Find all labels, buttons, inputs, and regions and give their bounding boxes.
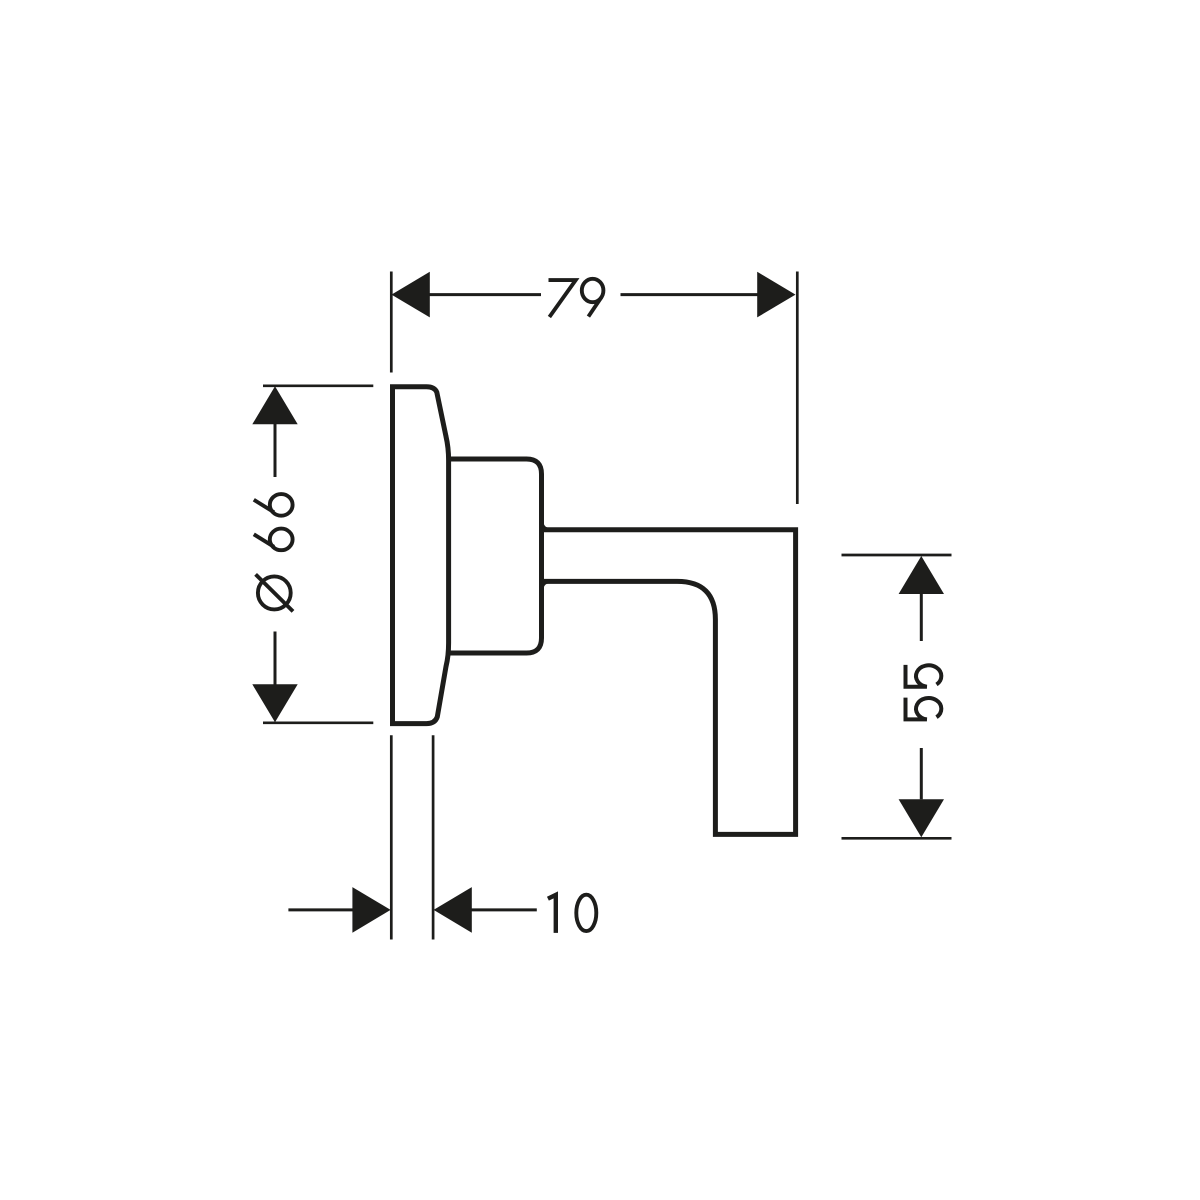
label 55 (rotated) <box>906 665 942 722</box>
dimension 79: extension line left <box>390 272 393 373</box>
dimension 10: extension line right <box>432 735 435 939</box>
dimension 55: extension line top <box>842 554 952 557</box>
dimension Ø66: extension line top <box>263 384 373 387</box>
fillet handle top junction <box>542 521 551 530</box>
dimension Ø66: top arrowhead <box>252 386 297 424</box>
dimension 10: right arrowhead (points left) <box>434 887 472 933</box>
dimension Ø66: bottom arrowhead <box>252 684 297 722</box>
label 79 <box>549 279 604 317</box>
dimension 79: dimension line <box>429 293 541 296</box>
dimension 79: extension line right <box>796 272 799 505</box>
escutcheon (wall plate, side view) <box>393 387 449 724</box>
dimension 55: dimension line <box>920 594 923 641</box>
dimension 79: right arrowhead <box>757 272 795 318</box>
dimension 10: dimension line tails <box>288 908 352 911</box>
dimension 55: extension line bottom <box>842 837 952 840</box>
dimension 55: bottom arrowhead <box>899 799 944 837</box>
fillet handle bottom junction <box>542 581 551 590</box>
dimension 55: top arrowhead <box>899 556 944 594</box>
dimension 79: left arrowhead <box>392 272 430 318</box>
label Ø 66 (rotated) <box>254 494 293 611</box>
sleeve (hub cylinder) <box>447 459 542 653</box>
dimension Ø66: dimension line <box>274 424 277 477</box>
dimension Ø66: extension line bottom <box>263 721 373 724</box>
label 10 <box>548 895 596 933</box>
dimension 10: left arrowhead (points right) <box>352 887 390 933</box>
lever handle (L-shape) <box>542 530 796 835</box>
dimension 10: extension line left <box>390 735 393 939</box>
